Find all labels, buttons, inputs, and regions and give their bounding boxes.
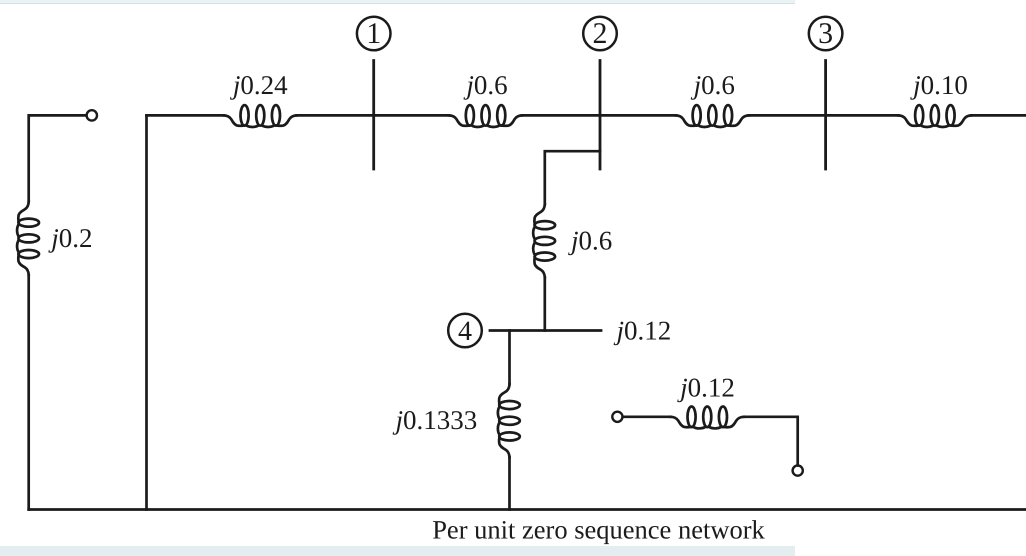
svg-text:j0.2: j0.2 — [48, 223, 92, 253]
node circle 1 — [357, 17, 391, 51]
wire: j0.2 down to bottom rail — [27, 275, 30, 510]
inductor j0.24 — [224, 105, 297, 127]
wire: j0.1333 to bottom rail — [508, 457, 511, 509]
terminal circle left — [87, 110, 97, 120]
wire: second vertical (bus to ground rail) — [145, 115, 148, 509]
wire: top rail, corner to j0.24 — [147, 114, 224, 117]
wire: top rail, j0.6 to bus 2 to j0.6 — [522, 114, 676, 117]
inductor j0.10 — [898, 105, 971, 127]
svg-text:j0.6: j0.6 — [463, 70, 507, 100]
svg-text:j0.1333: j0.1333 — [393, 405, 478, 435]
inductor j0.6 (bus1-bus2) — [449, 105, 522, 127]
inductor j0.1333 — [498, 384, 520, 457]
svg-text:j0.6: j0.6 — [568, 225, 612, 255]
svg-text:j0.12: j0.12 — [677, 372, 735, 402]
inductor j0.12 (low) — [671, 407, 744, 429]
bus bar 4 — [490, 329, 601, 332]
wire: coil to bus4 bar — [543, 277, 546, 330]
wire: top rail, j0.10 to right edge — [971, 114, 1026, 117]
node circle 2 — [583, 17, 617, 51]
wire: bottom ground rail — [29, 508, 1026, 511]
bus bar 2 — [599, 61, 602, 170]
svg-text:3: 3 — [818, 17, 833, 50]
svg-text:j0.12: j0.12 — [614, 315, 672, 345]
svg-text:j0.24: j0.24 — [230, 70, 288, 100]
terminal circle j0.12 right — [793, 466, 803, 476]
wire: j0.12 right down — [744, 417, 798, 466]
node circle 4 — [448, 314, 482, 348]
inductor j0.6 (vertical) — [533, 204, 555, 277]
wire: left generator branch — [29, 115, 87, 201]
wire: bus2 branch down — [545, 151, 600, 204]
inductor j0.2 — [17, 202, 39, 275]
wire: to j0.12 coil — [623, 415, 671, 418]
svg-text:j0.6: j0.6 — [691, 70, 735, 100]
wire: top rail, j0.24 to bus 1 to j0.6 — [297, 114, 449, 117]
svg-text:j0.10: j0.10 — [910, 70, 968, 100]
wire: top rail, j0.6 to bus 3 to j0.10 — [749, 114, 899, 117]
svg-text:Per unit zero sequence network: Per unit zero sequence network — [432, 515, 765, 545]
bus bar 1 — [372, 61, 375, 170]
terminal circle j0.12 left — [612, 412, 622, 422]
bus bar 3 — [824, 61, 827, 170]
node circle 3 — [809, 17, 843, 51]
wire: bus4 down — [508, 331, 511, 385]
svg-text:4: 4 — [458, 316, 472, 347]
top teal page strip — [0, 0, 795, 3]
inductor j0.6 (bus2-bus3) — [676, 105, 749, 127]
svg-text:2: 2 — [593, 17, 608, 50]
bottom teal page strip — [0, 546, 795, 556]
svg-text:1: 1 — [366, 17, 381, 50]
